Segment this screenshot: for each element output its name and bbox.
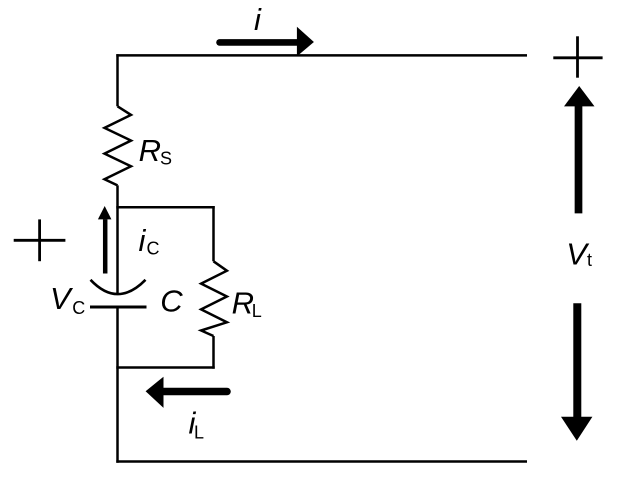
svg-text:R: R [139, 133, 161, 168]
svg-text:R: R [232, 286, 254, 321]
capacitor C curved plate [91, 280, 146, 294]
wire box top [116, 206, 214, 209]
svg-text:i: i [254, 2, 262, 37]
current arrow i_L (bottom, pointing left) [164, 388, 228, 396]
svg-text:L: L [252, 301, 262, 321]
plus sign left (V_C polarity) [14, 219, 66, 261]
svg-text:C: C [147, 239, 160, 259]
svg-text:C: C [72, 298, 85, 318]
current arrow i (top) [220, 39, 298, 46]
wire box right upper [212, 206, 215, 261]
voltage arrow V_t up [575, 106, 583, 213]
svg-text:L: L [194, 422, 204, 442]
resistor R_L [201, 261, 227, 336]
svg-text:i: i [139, 223, 147, 258]
wire left vertical upper [116, 54, 119, 106]
wire left vertical between R_S and capacitor [116, 185, 119, 294]
svg-text:t: t [587, 250, 592, 270]
resistor R_S [105, 106, 132, 185]
svg-text:C: C [160, 284, 183, 319]
wire left vertical lower [116, 309, 119, 463]
wire top horizontal [116, 54, 527, 57]
wire box right lower [212, 336, 215, 369]
capacitor C flat plate [90, 306, 147, 309]
wire bottom horizontal [116, 460, 527, 463]
wire box bottom [116, 366, 214, 369]
plus sign top right (V_t polarity) [553, 36, 602, 77]
voltage arrow V_t down [573, 303, 581, 417]
svg-text:S: S [160, 149, 172, 169]
svg-text:V: V [50, 281, 74, 316]
current arrow i_C [103, 219, 108, 273]
